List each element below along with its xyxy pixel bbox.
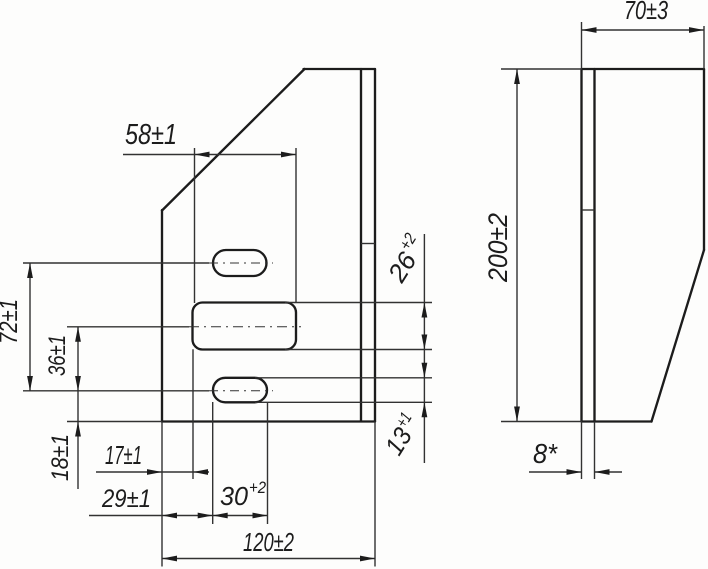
svg-text:17±1: 17±1 — [105, 440, 142, 470]
arrow 36 top — [75, 327, 81, 342]
arrow 58 left — [195, 152, 210, 158]
arrow 8 left — [567, 469, 582, 475]
front view seam tick — [361, 243, 375, 245]
dim line 8 left seg — [529, 471, 582, 473]
label 26+2 — [379, 229, 433, 288]
ext slot2 bottom right — [285, 349, 432, 351]
ext slot3-right down — [267, 402, 269, 524]
side view slant edge — [652, 250, 705, 422]
arrow 72 bottom — [27, 376, 33, 391]
dim line 72 — [29, 263, 31, 391]
ext line 58 left — [194, 148, 196, 303]
ext part-left down — [161, 422, 163, 567]
arrow 30 left — [213, 513, 228, 519]
dim line 17 — [96, 471, 209, 473]
ext 8 left down — [581, 422, 583, 480]
dim line 200 — [516, 69, 518, 422]
ext 70 left up — [581, 22, 583, 69]
arrow 120 right — [360, 556, 375, 562]
arrow 26 bottom — [422, 335, 428, 350]
ext 200 bottom — [501, 421, 582, 423]
arrow 29 right — [198, 513, 213, 519]
svg-text:200±2: 200±2 — [483, 213, 513, 283]
arrow 17 right — [193, 469, 208, 475]
slot 1 top — [213, 250, 267, 276]
front view bottom edge — [162, 420, 375, 422]
side view left edge — [580, 69, 582, 422]
ext part-right down — [374, 422, 376, 567]
arrow 13 bottom — [422, 402, 428, 417]
ext 200 top — [501, 68, 582, 70]
slot 2 middle — [193, 303, 297, 350]
svg-text:29±1: 29±1 — [101, 485, 151, 513]
arrow 17 left — [147, 469, 162, 475]
arrow 29 left — [162, 513, 177, 519]
ext 8 right down — [594, 422, 596, 480]
dim line 120 — [162, 558, 375, 560]
svg-text:8*: 8* — [533, 438, 558, 469]
front view top edge — [304, 68, 376, 70]
ext line 58 right — [295, 148, 297, 303]
arrow 36 bottom 18 top — [75, 376, 81, 391]
svg-text:+2: +2 — [249, 478, 266, 497]
arrow 18 bottom — [75, 422, 81, 437]
centerline slot2 — [67, 326, 189, 328]
arrow 72 top — [27, 263, 33, 278]
front view inner bend line — [360, 69, 362, 421]
side view seam tick — [582, 209, 595, 211]
side view top edge — [582, 68, 705, 70]
arrow 200 bottom — [514, 407, 520, 422]
side view right edge — [703, 69, 705, 250]
arrow 30 right — [253, 513, 268, 519]
ext 70 right up — [703, 26, 705, 69]
svg-text:70±3: 70±3 — [624, 0, 668, 25]
svg-text:120±2: 120±2 — [243, 527, 294, 557]
arrow 58 right — [281, 152, 296, 158]
arrow 120 left — [162, 556, 177, 562]
ext slot2 top right — [285, 302, 432, 304]
dim line 29 30 — [89, 515, 268, 517]
svg-text:18±1: 18±1 — [47, 434, 74, 481]
dim line 58 — [123, 154, 296, 156]
svg-text:58±1: 58±1 — [125, 119, 177, 151]
arrow 70 left — [582, 27, 597, 33]
svg-text:30: 30 — [220, 481, 249, 511]
dim line 70 — [582, 29, 705, 31]
dim line 26 13 — [423, 234, 425, 463]
arrow 8 right — [595, 469, 610, 475]
ext bottom edge left — [67, 421, 162, 423]
svg-text:36±1: 36±1 — [44, 335, 71, 376]
side view inner face line — [593, 69, 595, 422]
centerline slot1 — [23, 262, 209, 264]
ext slot2-left down — [192, 349, 194, 479]
arrow 70 right — [689, 27, 704, 33]
front view right edge — [374, 69, 376, 422]
ext slot3 bottom right — [255, 401, 432, 403]
front view left edge — [161, 210, 163, 422]
ext slot3 top right — [255, 377, 432, 379]
side view bottom edge — [582, 420, 652, 422]
arrow 26 top — [422, 303, 428, 318]
centerline slot3 — [23, 390, 209, 392]
label 13+1 — [378, 409, 426, 460]
arrow 13 top — [422, 363, 428, 378]
ext slot3-left down — [212, 402, 214, 524]
arrow 200 top — [514, 69, 520, 84]
svg-text:72±1: 72±1 — [0, 299, 23, 344]
slot 3 bottom — [213, 378, 267, 403]
dim line 8 right seg — [595, 471, 623, 473]
dim line 36 and 18 — [77, 327, 79, 489]
front view slant edge — [162, 69, 305, 211]
